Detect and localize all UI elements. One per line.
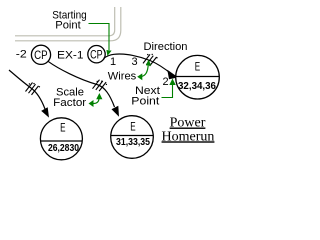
device CP2 <box>88 46 105 63</box>
hash marks W3 <box>143 54 157 66</box>
svg-text:31,33,35: 31,33,35 <box>116 137 150 148</box>
panel E1 <box>176 55 220 99</box>
wire W2 from CP1 to E3 <box>48 61 115 107</box>
svg-text:Point: Point <box>131 96 159 108</box>
hash marks W2 <box>93 80 107 91</box>
svg-text:-2: -2 <box>16 49 27 61</box>
svg-text:Factor: Factor <box>53 97 86 109</box>
svg-text:E: E <box>60 122 66 134</box>
svg-text:E: E <box>130 122 136 134</box>
svg-text:3: 3 <box>132 56 138 68</box>
svg-text:E: E <box>195 61 201 73</box>
svg-text:CP: CP <box>34 48 48 62</box>
device CP1 <box>31 45 50 64</box>
svg-text:Direction: Direction <box>144 41 188 53</box>
svg-text:1: 1 <box>110 56 116 68</box>
callout arrowhead at CP2 <box>106 50 111 56</box>
svg-text:32,34,36: 32,34,36 <box>178 81 216 92</box>
wire W1 from offscreen to E2 <box>9 70 45 109</box>
green curved arrow Wires/Direction <box>141 64 149 77</box>
svg-text:Point: Point <box>55 20 81 32</box>
panel E2 <box>40 118 82 160</box>
svg-text:EX-1: EX-1 <box>57 50 84 62</box>
svg-text:Power: Power <box>170 116 206 131</box>
hash marks W1 <box>26 83 39 95</box>
svg-text:Wires: Wires <box>108 71 137 83</box>
wall outer line <box>15 7 121 41</box>
wall inner line <box>15 7 115 36</box>
green curved arrow Scale Factor <box>93 98 100 104</box>
callout leader Next Point <box>162 83 173 98</box>
svg-text:2: 2 <box>163 76 169 88</box>
panel E3 <box>111 116 154 159</box>
callout leader Starting Point <box>89 24 110 51</box>
svg-text:CP: CP <box>90 49 103 61</box>
wire W3 from CP2 to E1 <box>104 54 173 74</box>
svg-text:26,2830: 26,2830 <box>48 143 79 154</box>
svg-text:Homerun: Homerun <box>162 129 215 144</box>
